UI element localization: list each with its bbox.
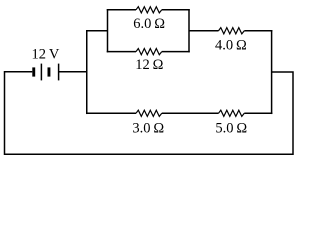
battery plate short thick (right cell -) [48, 67, 51, 76]
wire box bottom edge left [107, 51, 136, 53]
resistor R3 4.0 ohm zigzag [219, 28, 245, 34]
wire R3 to right node [244, 30, 272, 32]
svg-text:6.0 Ω: 6.0 Ω [133, 16, 165, 32]
wire left node to R4 [86, 112, 136, 114]
svg-text:12 V: 12 V [31, 46, 59, 62]
wire box top edge left [107, 9, 136, 11]
wire left node vertical [86, 30, 88, 114]
wire left node to parallel box [86, 30, 108, 32]
svg-text:4.0 Ω: 4.0 Ω [215, 37, 247, 53]
wire box to R3 [189, 30, 219, 32]
wire outer loop (battery left lead, left edge, bottom, right edge) [5, 72, 294, 154]
wire R4 to R5 [162, 112, 219, 114]
svg-text:12 Ω: 12 Ω [135, 57, 163, 73]
wire battery positive to left node [59, 71, 87, 73]
resistor R4 3.0 ohm zigzag [136, 110, 162, 116]
battery V1 12 V [32, 64, 58, 81]
resistor R2 12 ohm zigzag [136, 49, 162, 55]
resistor R1 6.0 ohm zigzag [136, 7, 162, 13]
wire box bottom edge right [162, 51, 190, 53]
parallel box right edge [188, 9, 190, 52]
svg-text:5.0 Ω: 5.0 Ω [215, 121, 247, 137]
resistor R5 5.0 ohm zigzag [219, 110, 245, 116]
svg-text:3.0 Ω: 3.0 Ω [132, 120, 164, 136]
battery plate long thin (left cell +) [40, 64, 42, 81]
battery plate short thick (left cell -) [32, 67, 35, 76]
wire R5 to right node [244, 112, 272, 114]
battery plate long thin (right cell +) [58, 64, 60, 81]
wire box top edge right [162, 9, 190, 11]
wire right node vertical [271, 30, 273, 114]
parallel box left edge [107, 9, 109, 52]
